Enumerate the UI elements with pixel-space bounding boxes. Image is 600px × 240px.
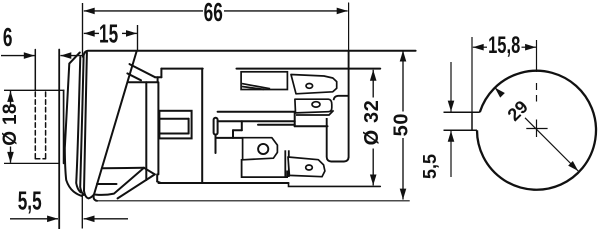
svg-text:Ø 18: Ø 18 (0, 103, 21, 145)
svg-text:66: 66 (204, 0, 223, 27)
svg-text:5,5: 5,5 (420, 154, 440, 179)
svg-text:15: 15 (99, 19, 118, 48)
svg-text:Ø 32: Ø 32 (361, 100, 383, 146)
svg-text:5,5: 5,5 (18, 186, 42, 215)
svg-text:15,8: 15,8 (488, 32, 520, 59)
svg-text:6: 6 (3, 23, 13, 52)
svg-text:50: 50 (390, 113, 412, 136)
